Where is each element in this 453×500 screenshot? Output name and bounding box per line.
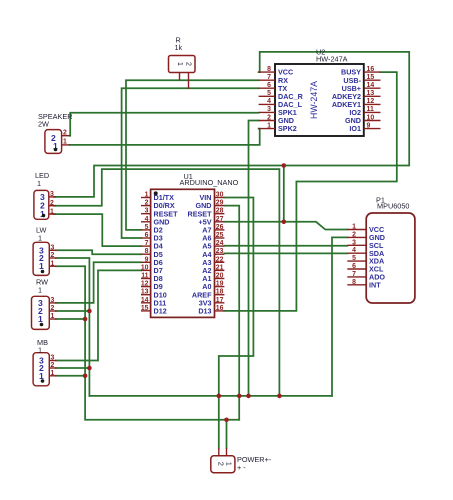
svg-text:12: 12 [367,98,375,105]
svg-text:1: 1 [38,314,43,324]
svg-text:9: 9 [367,122,371,129]
svg-text:15: 15 [367,74,375,81]
svg-text:3: 3 [51,245,55,252]
svg-text:2: 2 [51,305,55,312]
svg-text:1: 1 [63,139,67,146]
svg-text:10: 10 [367,114,375,121]
svg-text:22: 22 [216,256,224,263]
svg-text:1: 1 [38,234,42,243]
svg-text:26: 26 [216,224,224,231]
svg-text:SPK2: SPK2 [278,124,297,133]
svg-text:8: 8 [145,248,149,255]
svg-text:2: 2 [267,114,271,121]
svg-text:1: 1 [51,370,55,377]
svg-text:1: 1 [176,62,183,66]
svg-text:IO1: IO1 [349,124,361,133]
svg-text:21: 21 [216,264,224,271]
svg-text:7: 7 [352,271,356,278]
svg-text:HW-247A: HW-247A [309,81,319,119]
svg-text:30: 30 [216,192,224,199]
svg-text:5: 5 [145,224,149,231]
svg-text:2: 2 [185,62,192,66]
svg-text:17: 17 [216,297,224,304]
svg-text:11: 11 [367,106,374,113]
svg-text:2: 2 [216,462,225,466]
svg-text:5: 5 [352,255,356,262]
svg-text:1k: 1k [175,43,183,52]
svg-text:15: 15 [141,305,149,312]
svg-text:20: 20 [216,273,224,280]
svg-text:3: 3 [51,297,55,304]
svg-text:10: 10 [141,264,149,271]
svg-text:2: 2 [352,231,356,238]
svg-text:25: 25 [216,232,224,239]
svg-text:INT: INT [369,280,381,289]
svg-text:1: 1 [224,462,233,466]
svg-text:3: 3 [267,106,271,113]
svg-text:5: 5 [267,90,271,97]
svg-text:1: 1 [38,286,42,295]
svg-text:14: 14 [141,297,149,304]
svg-text:27: 27 [216,216,224,223]
svg-text:2: 2 [51,252,55,259]
svg-text:2: 2 [51,362,55,369]
svg-text:8: 8 [267,66,271,73]
svg-text:1: 1 [38,346,42,355]
svg-text:1: 1 [352,224,356,231]
svg-text:6: 6 [267,82,271,89]
svg-text:29: 29 [216,200,224,207]
svg-text:2W: 2W [38,120,49,129]
svg-text:1: 1 [145,192,149,199]
svg-text:14: 14 [367,82,375,89]
svg-text:4: 4 [145,216,149,223]
svg-text:2: 2 [50,200,54,207]
svg-text:19: 19 [216,281,224,288]
svg-text:D12: D12 [154,307,167,316]
svg-text:13: 13 [141,289,149,296]
svg-text:3: 3 [51,355,55,362]
svg-text:6: 6 [145,232,149,239]
svg-text:7: 7 [145,240,149,247]
svg-text:2: 2 [63,130,67,137]
svg-text:8: 8 [352,279,356,286]
svg-text:MPU6050: MPU6050 [377,202,409,211]
svg-text:3: 3 [50,191,54,198]
svg-text:12: 12 [141,281,149,288]
svg-text:9: 9 [145,256,149,263]
svg-text:18: 18 [216,289,224,296]
svg-text:4: 4 [267,98,271,105]
svg-text:3: 3 [145,208,149,215]
svg-text:13: 13 [367,90,375,97]
svg-text:D13: D13 [198,307,211,316]
svg-text:7: 7 [267,74,271,81]
svg-text:ARDUINO_NANO: ARDUINO_NANO [180,178,239,187]
svg-text:28: 28 [216,208,224,215]
svg-text:2: 2 [145,200,149,207]
svg-text:1: 1 [37,179,41,188]
svg-text:23: 23 [216,248,224,255]
svg-text:1: 1 [39,371,44,381]
svg-text:1: 1 [51,260,55,267]
svg-text:3: 3 [352,239,356,246]
svg-text:HW-247A: HW-247A [316,54,348,63]
svg-text:16: 16 [216,305,224,312]
svg-text:24: 24 [216,240,224,247]
svg-text:6: 6 [352,263,356,270]
svg-text:1: 1 [39,261,44,271]
svg-text:11: 11 [141,273,148,280]
svg-text:16: 16 [367,66,375,73]
svg-text:+ -: + - [237,463,246,472]
svg-text:1: 1 [51,313,55,320]
svg-text:1: 1 [267,122,271,129]
svg-text:1: 1 [50,208,54,215]
svg-text:4: 4 [352,247,356,254]
